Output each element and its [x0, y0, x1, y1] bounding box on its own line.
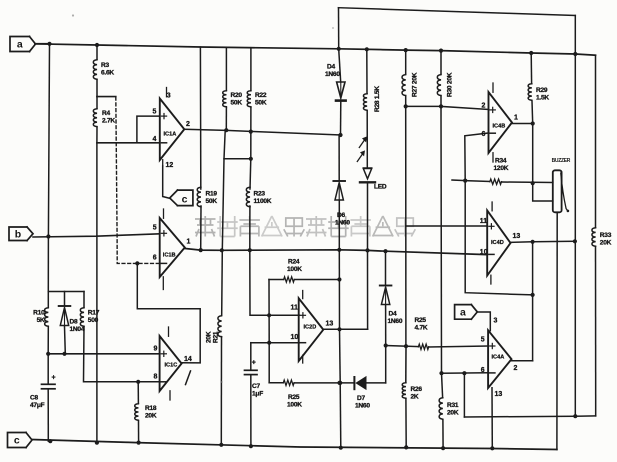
junction at 367.5,250.4	[365, 248, 369, 252]
junction at 340.8,447.7	[339, 446, 343, 450]
junction at 137.3,263.4	[135, 261, 139, 265]
svg-text:D4: D4	[327, 64, 336, 71]
LED arrows	[359, 140, 365, 148]
svg-text:13: 13	[513, 233, 521, 240]
junction at 49.5,43.8	[47, 42, 51, 46]
svg-text:1N60: 1N60	[325, 71, 340, 78]
wire: IC4D output row to right column	[511, 241, 575, 242]
diode D4 1N60 top	[337, 82, 345, 98]
wire: parallel network top bar	[48, 291, 84, 293]
svg-text:R23: R23	[254, 191, 266, 198]
wire: R31 link below	[442, 373, 443, 397]
svg-text:IC1A: IC1A	[164, 132, 177, 138]
wire: R30 column	[440, 51, 442, 74]
svg-text:1: 1	[187, 239, 191, 246]
IC1A top/bottom pin stubs	[166, 88, 168, 97]
svg-text:2.7K: 2.7K	[102, 118, 115, 125]
svg-text:IC4D: IC4D	[491, 240, 504, 246]
resistor R22 50K	[247, 90, 251, 108]
wire: x=465 column down to IC4D feedback row	[465, 181, 532, 295]
wire: IC1C non-inverting input row	[48, 353, 159, 355]
IC1B top/bottom pin stubs	[163, 209, 165, 218]
svg-text:C8: C8	[30, 395, 39, 402]
junction at 64.5,353.8	[62, 352, 66, 356]
svg-text:14: 14	[184, 356, 192, 363]
svg-text:D4: D4	[389, 311, 398, 318]
wire: D4 column from IC1B bus down to y=347 row	[385, 251, 387, 285]
resistor R23 1100K	[246, 187, 250, 208]
op-amp IC1A	[160, 99, 185, 161]
IC4D top/bottom pin stubs	[491, 202, 493, 211]
junction at 385.5,251.2	[383, 249, 387, 253]
wire: IC1B output bus to IC4D inverting input	[185, 249, 486, 255]
junction at 339.4,279.5	[337, 277, 341, 281]
wire: IC2D output row	[323, 328, 368, 330]
diode D6 1N60	[333, 180, 345, 182]
svg-text:c: c	[14, 435, 20, 447]
IC4B top/bottom pin stubs	[492, 83, 494, 92]
wire: R23 column down to IC2D non-inverting input	[249, 159, 252, 189]
junction at 50.3,441.2	[48, 439, 52, 443]
junction at 464.4,373.2	[462, 371, 466, 375]
svg-text:1N60: 1N60	[335, 220, 350, 227]
svg-text:3: 3	[494, 318, 498, 325]
junction at 339.5,329.3	[337, 327, 341, 331]
svg-text:R24: R24	[288, 259, 300, 266]
svg-text:5: 5	[153, 225, 157, 232]
wire: lower-right horizontal return y=417	[464, 416, 595, 417]
svg-text:5K: 5K	[37, 317, 45, 324]
junction at 441,106.4	[439, 104, 443, 108]
svg-text:IC4A: IC4A	[492, 355, 505, 361]
svg-text:50K: 50K	[231, 100, 243, 107]
IC1C top/bottom pin stubs	[168, 327, 170, 336]
svg-text:+: +	[252, 360, 256, 367]
junction at 575.3,54	[573, 52, 577, 56]
svg-text:1100K: 1100K	[254, 198, 272, 205]
wire: IC4D non-inverting input row	[406, 225, 488, 227]
svg-text:12: 12	[166, 162, 174, 169]
wire: buzzer column down to ground bus	[556, 212, 558, 449]
svg-text:LED: LED	[374, 184, 387, 191]
junction at 250.8,131.6	[249, 130, 253, 134]
svg-text:3: 3	[167, 93, 171, 100]
resistor R27 20K vertical	[402, 74, 406, 96]
resistor R25 100K	[283, 380, 294, 385]
IC2D top/bottom pin stubs	[302, 291, 304, 299]
svg-text:+: +	[52, 375, 56, 382]
wire: IC2D inverting row and C7 drop	[251, 342, 300, 344]
junction at 96.9,442.7	[95, 441, 99, 445]
svg-text:10: 10	[480, 249, 488, 256]
svg-text:b: b	[15, 228, 21, 240]
wire: jog joining R27/R30 bottoms	[406, 105, 441, 107]
wire: IC1A non-inverting input link	[137, 116, 159, 143]
wire: R20 top stub from node a rail	[225, 47, 227, 90]
resistor R25 4.7K	[418, 344, 428, 349]
junction at 340.2,382.9	[338, 381, 342, 385]
wire: R25 feedback row to D7	[269, 382, 283, 384]
svg-text:R26: R26	[411, 386, 423, 393]
svg-text:R34: R34	[495, 158, 507, 165]
junction at 406.2,447.4	[404, 445, 408, 449]
resistor R33 20K	[592, 227, 596, 247]
terminal c input	[8, 433, 27, 448]
svg-text:6.6K: 6.6K	[101, 70, 114, 77]
svg-text:BUZZER: BUZZER	[552, 158, 571, 164]
svg-text:47μF: 47μF	[30, 402, 45, 409]
wire: R33 column right edge	[595, 55, 597, 227]
resistor R21 20K	[218, 315, 222, 337]
junction at 492.3,448.3	[490, 446, 494, 450]
junction at 575.3,416.2	[573, 414, 577, 418]
terminal b input	[9, 227, 27, 241]
resistor R4 2.7K	[93, 108, 97, 127]
svg-text:IC4B: IC4B	[493, 124, 506, 130]
junction at 441.5,373.2	[439, 371, 443, 375]
wire: IC4B output to R29 junction	[512, 123, 533, 125]
net label c tag at IC1A	[178, 190, 193, 206]
wire: IC1A inverting input row	[97, 142, 159, 144]
svg-text:R3: R3	[101, 62, 110, 69]
svg-text:R20: R20	[231, 92, 243, 99]
terminal a reference right	[455, 305, 472, 320]
svg-text:R31: R31	[447, 402, 459, 409]
resistor R10 5K	[45, 307, 49, 327]
junction at 221.8,250.3	[220, 248, 224, 252]
wire: R17 top stub	[83, 292, 85, 308]
svg-text:R10: R10	[33, 310, 45, 317]
wire: D8 top stub	[64, 292, 66, 307]
wire: top feedback loop horizontal	[339, 8, 576, 16]
wire: right column x=575 from top loop down to bottom-right bus	[574, 16, 576, 416]
resistor R34 120K	[490, 179, 502, 184]
junction at 574.9,241.3	[573, 239, 577, 243]
svg-text:5: 5	[481, 337, 485, 344]
junction at 532.6,294.9	[531, 293, 535, 297]
svg-text:11: 11	[291, 305, 299, 312]
wire: LED column	[366, 49, 368, 93]
junction at 339.5,382.9	[337, 381, 341, 385]
svg-text:IC1B: IC1B	[163, 253, 176, 259]
junction at 406,346.2	[404, 344, 408, 348]
wire: terminal a2 to IC4A top pin	[477, 312, 490, 331]
svg-text:100K: 100K	[287, 266, 302, 273]
capacitor C8 47uF	[42, 383, 56, 385]
svg-text:13: 13	[495, 391, 503, 398]
junction at 338.7,48.8	[337, 47, 341, 51]
diode D7 1N60 horizontal	[353, 377, 355, 389]
svg-text:R17: R17	[88, 310, 100, 317]
resistor R17 500	[80, 307, 84, 327]
junction at 532.6,241.8	[531, 240, 535, 244]
waveform decay stroke	[561, 173, 568, 211]
svg-text:R21: R21	[213, 331, 220, 343]
op-amp IC1B	[160, 218, 185, 277]
junction at 405.7,106.4	[404, 104, 408, 108]
svg-text:6: 6	[481, 367, 485, 374]
resistor R30 20K vertical	[437, 74, 441, 96]
svg-text:IC1C: IC1C	[165, 363, 178, 369]
op-amp IC4A	[488, 330, 511, 388]
resistor R29 1.5K	[528, 83, 532, 101]
junction at 532.7,123.5	[531, 121, 535, 125]
svg-text:20K: 20K	[145, 413, 157, 420]
svg-text:1μF: 1μF	[252, 391, 263, 398]
wire: IC4B non-inverting input row	[441, 106, 489, 109]
junction at 405.7,50.1	[404, 48, 408, 52]
junction at 226.3,130.2	[224, 128, 228, 132]
svg-text:D7: D7	[357, 395, 366, 402]
wire: IC4A bottom pin to ground bus	[491, 388, 493, 449]
wire: IC4B output column down to buzzer input	[533, 124, 553, 202]
svg-text:6: 6	[482, 131, 486, 138]
svg-text:2: 2	[514, 365, 518, 372]
junction at 97,45	[95, 43, 99, 47]
svg-text:20K: 20K	[600, 240, 612, 247]
wire: second left vertical x=97 full height	[96, 45, 98, 59]
svg-text:13: 13	[326, 321, 334, 328]
junction at 250.8,158.8	[249, 157, 253, 161]
wire: R18 column from IC1C inverting row to ground bus	[137, 382, 139, 403]
wire: column x=532.6 from IC4D output row to IC4A output	[532, 242, 534, 361]
junction at 465.2,180.6	[463, 179, 467, 183]
wire: IC1A pin 12 down to net label c	[163, 166, 170, 198]
junction at 138.6,442.6	[137, 441, 141, 445]
wire: R26 column	[405, 346, 407, 382]
junction at 441,50.6	[439, 49, 443, 53]
svg-text:50K: 50K	[255, 100, 267, 107]
junction at 48.4,236.5	[46, 234, 50, 238]
wire: IC1C output feedback loop to IC1B inverting input	[137, 263, 200, 363]
IC1C scan artifact stroke	[186, 371, 191, 385]
svg-text:10: 10	[291, 334, 299, 341]
wire: feedback column x=269	[268, 280, 270, 383]
svg-text:2: 2	[186, 121, 190, 128]
svg-text:R30 20K: R30 20K	[447, 72, 454, 97]
junction at 443.1,448.2	[441, 446, 445, 450]
wire: R34 feedback row into buzzer	[452, 179, 465, 182]
wire: IC1A output row to diode column	[184, 129, 340, 135]
junction at 339.3,249.8	[337, 248, 341, 252]
junction at 269.1,315.3	[267, 313, 271, 317]
junction at 269.2,342.7	[267, 341, 271, 345]
svg-text:C7: C7	[252, 383, 261, 390]
scan speck artifacts	[72, 14, 74, 16]
svg-text:R19: R19	[206, 191, 218, 198]
junction at 249.8,250.2	[248, 248, 252, 252]
capacitor C7 1uF	[245, 369, 258, 371]
wire: diode column x=339 top section	[339, 49, 341, 82]
svg-text:1: 1	[514, 115, 518, 122]
wire: IC4B inverting loop	[465, 133, 489, 181]
svg-text:D8: D8	[70, 319, 79, 326]
svg-text:1N60: 1N60	[355, 403, 370, 410]
junction at 221.3,444.8	[219, 443, 223, 447]
decorative watermark (not labelled further)	[195, 216, 216, 237]
svg-text:R4: R4	[102, 110, 111, 117]
junction at 532.7,183.1	[531, 181, 535, 185]
junction at 531.2,53	[529, 51, 533, 55]
svg-text:R22: R22	[255, 92, 267, 99]
svg-text:100K: 100K	[287, 402, 302, 409]
node a rail: horizontal wire across top	[35, 44, 596, 55]
svg-text:IC2D: IC2D	[304, 325, 317, 331]
svg-text:1N60: 1N60	[388, 318, 403, 325]
svg-text:a: a	[17, 39, 23, 51]
wire: IC4A inverting node drop to y=417 return	[463, 373, 465, 417]
svg-text:9: 9	[154, 346, 158, 353]
svg-text:4.7K: 4.7K	[415, 325, 428, 332]
svg-text:R28 1.5K: R28 1.5K	[374, 86, 381, 112]
resistor R3 6.6K	[93, 59, 97, 80]
wire: R10 bottom and D8 bottom stubs	[64, 327, 67, 354]
svg-text:4: 4	[153, 136, 157, 143]
node c ground bus: bottom horizontal wire	[32, 440, 557, 450]
junction at 48.2,353.8	[46, 352, 50, 356]
resistor R26 2K	[402, 382, 406, 399]
op-amp IC4D	[487, 211, 510, 276]
resistor R20 50K	[223, 90, 227, 108]
wire: R22 top stub from node a rail	[250, 48, 252, 90]
svg-text:R25: R25	[415, 317, 427, 324]
wire: R24 feedback row	[269, 279, 284, 281]
svg-text:120K: 120K	[494, 165, 509, 172]
junction at 340.5,135	[338, 133, 342, 137]
junction at 250.9,446.2	[249, 444, 253, 448]
svg-text:20K: 20K	[206, 331, 213, 343]
resistor R24 100K	[284, 277, 295, 282]
junction at 200.7,250.1	[199, 248, 203, 252]
svg-text:a: a	[460, 307, 466, 319]
svg-text:2: 2	[482, 103, 486, 110]
svg-text:50K: 50K	[206, 198, 218, 205]
svg-text:1.5K: 1.5K	[536, 95, 549, 102]
svg-text:D6: D6	[337, 212, 346, 219]
svg-text:R18: R18	[145, 405, 157, 412]
buzzer output box	[553, 170, 562, 212]
resistor R18 20K	[135, 403, 139, 421]
diode D4 1N60 second	[380, 285, 392, 287]
resistor R31 20K	[439, 397, 443, 420]
op-amp IC4B	[489, 92, 513, 153]
svg-text:8: 8	[154, 374, 158, 381]
svg-text:R25: R25	[288, 394, 300, 401]
terminal a input	[10, 37, 30, 52]
resistor R28 1.5K vertical	[363, 93, 367, 111]
wire: y=347 row through R25 4.7K to IC4A non-inverting input	[386, 346, 419, 347]
svg-text:500: 500	[88, 317, 99, 324]
wire: IC4A output row	[512, 360, 533, 362]
wire: top loop left vertical drop to node a rail	[338, 8, 340, 49]
svg-text:5: 5	[153, 109, 157, 116]
junction at 138.2,381.8	[136, 380, 140, 384]
op-amp IC1C	[160, 336, 182, 391]
diode D8 1N04	[59, 305, 71, 307]
svg-text:R29: R29	[536, 87, 548, 94]
wire: R20 bottom stub to IC1A output row	[225, 108, 227, 131]
wire: left column from node a junction down to R10/C8	[48, 44, 49, 307]
svg-text:11: 11	[480, 218, 488, 225]
wire: R17 drop and IC1C inverting input row	[84, 327, 159, 382]
wire: R29 column from node a rail	[530, 53, 532, 83]
LED	[363, 167, 371, 169]
resistor R19 50K	[197, 187, 201, 208]
svg-text:20K: 20K	[447, 410, 459, 417]
wire: R27 column from node a rail to IC4D non-inverting	[405, 50, 407, 74]
svg-text:R27 20K: R27 20K	[412, 72, 419, 97]
svg-text:6: 6	[153, 255, 157, 262]
wire: R3/R4 divider jog to IC1B inverting input	[97, 96, 116, 98]
wire: R22/R21 column and jog y=159	[250, 108, 252, 159]
junction at 385.7,345.5	[384, 343, 388, 347]
wire: R19 column	[199, 47, 201, 189]
svg-text:c: c	[182, 194, 188, 206]
svg-text:1N04: 1N04	[70, 326, 85, 333]
svg-text:2K: 2K	[411, 394, 419, 401]
wire: IC4A inverting input row	[442, 372, 489, 374]
svg-text:R33: R33	[600, 232, 612, 239]
junction at 366.8,49.3	[365, 47, 369, 51]
op-amp IC2D	[299, 298, 324, 361]
